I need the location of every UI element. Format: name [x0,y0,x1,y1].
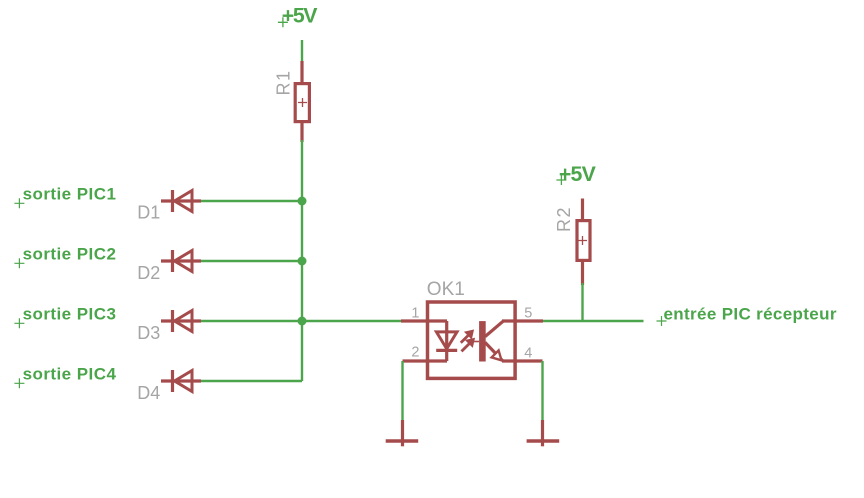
svg-text:OK1: OK1 [427,279,465,300]
label entrée PIC récepteur [657,305,837,327]
svg-text:sortie PIC1: sortie PIC1 [23,185,117,204]
svg-text:R2: R2 [554,206,574,232]
wire pin4 down to ground [541,361,543,421]
light arrow upper [461,330,474,343]
svg-text:sortie PIC4: sortie PIC4 [23,365,117,384]
diode D4 [161,370,201,392]
pin 5 lead [502,319,543,322]
svg-text:+5V: +5V [282,3,318,27]
resistor R1 [295,61,309,142]
wire D1 row [199,200,302,202]
pin 4 lead [502,359,543,362]
svg-text:1: 1 [411,306,419,322]
resistor R2 [577,199,590,286]
svg-text:+5V: +5V [559,162,597,186]
junction node D2/bus [298,257,307,266]
label sortie PIC4 [14,365,116,389]
light arrow lower [462,338,475,351]
svg-text:D1: D1 [137,203,160,223]
wire vertical bus R1 to D4 row [301,140,303,381]
diode D2 [161,250,201,272]
pin 1 lead [401,319,447,322]
wire D3 row to OK1 pin1 [199,320,401,322]
wire pin2 down to ground [401,361,403,421]
svg-text:4: 4 [524,346,532,362]
wire D2 row [199,260,302,262]
wire +5V to R1 [301,40,303,62]
label sortie PIC3 [14,305,116,329]
label sortie PIC2 [14,245,116,269]
svg-text:sortie PIC2: sortie PIC2 [23,245,117,264]
svg-text:D4: D4 [137,383,160,403]
LED inside OK1 [436,321,457,361]
wire D4 row [199,380,302,382]
ground (left) [386,420,419,446]
junction node D3/bus [298,317,307,326]
svg-text:2: 2 [411,345,419,361]
wire OK1 pin5 to label [542,320,644,322]
diode D3 [161,310,201,332]
supply +5V (feeding R2) [556,162,596,186]
transistor inside OK1 [473,321,503,361]
ground (right) [527,420,560,446]
diode D1 [161,190,201,212]
wire R2 to node [581,283,583,321]
optocoupler OK1 body [428,302,516,378]
svg-text:5: 5 [524,306,532,322]
pin 2 lead [403,359,448,362]
svg-text:D2: D2 [137,263,160,283]
label sortie PIC1 [14,185,116,209]
svg-text:entrée PIC récepteur: entrée PIC récepteur [664,305,837,324]
svg-text:sortie PIC3: sortie PIC3 [23,305,117,324]
supply +5V (top, feeding R1) [278,3,318,27]
junction node D1/bus [298,197,307,206]
svg-text:R1: R1 [274,69,294,95]
svg-text:D3: D3 [137,323,160,343]
